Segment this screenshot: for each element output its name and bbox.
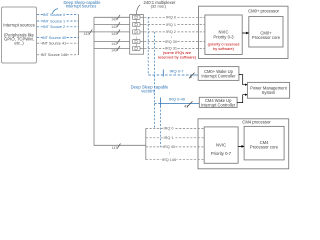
mux input wire row2 [94,22,132,29]
wire INT Source 1 [37,19,79,24]
svg-text:147: 147 [111,32,117,36]
main bus vertical [94,17,146,145]
svg-text:etc..): etc..) [14,41,24,46]
wire IRQ 0 (CM4) [146,126,204,131]
blue vertical A IRQ 0-7 collector [147,17,149,75]
mux ellipsis dots [135,37,138,41]
wire IRQ 2 [140,30,205,35]
mux input wire row5 [94,46,132,53]
svg-text:147: 147 [111,49,117,53]
NVIC CM4 box [204,127,238,163]
svg-text:by software): by software) [213,47,234,51]
svg-text:IRQ 0-7: IRQ 0-7 [169,69,184,74]
svg-text:147: 147 [83,32,89,36]
svg-text:147: 147 [111,25,117,29]
wire INT Source 40 [37,35,79,40]
interrupt sources box [2,7,37,63]
svg-text:147: 147 [112,146,118,150]
svg-text:Priority 0-3: Priority 0-3 [213,34,234,39]
CM4 Wake Up Interrupt Controller box [199,97,237,107]
deep sleep capable interrupt sources annotation [52,0,101,14]
svg-text:IRQ 0: IRQ 0 [166,16,176,20]
svg-text:Processor core: Processor core [250,144,279,149]
svg-text:Interrupt sources: Interrupt sources [3,22,34,27]
Power Management System box [247,82,289,98]
mux label [136,0,176,14]
multiplexer block outer box [130,15,144,55]
wire INT Source 2 [37,24,79,29]
svg-text:IRQ 0: IRQ 0 [164,127,174,131]
mux input wire row4 [94,39,132,46]
wire INT Source 146 [37,52,79,57]
svg-text:IRQ 1: IRQ 1 [164,136,174,140]
wire INT Source 0 [37,12,79,17]
svg-text:IRQ 0-40: IRQ 0-40 [169,97,186,102]
svg-text:INT Source 1: INT Source 1 [43,19,65,23]
svg-text:147: 147 [111,18,117,22]
left collector bus [78,15,80,55]
IRQ ellipsis dots [170,36,173,38]
svg-text:IRQ 146: IRQ 146 [162,158,176,162]
svg-text:IRQ 40: IRQ 40 [163,145,175,149]
svg-text:INT Source 40: INT Source 40 [42,36,66,40]
wire IRQ 0-40 to CM4 WIC [154,97,199,109]
mux input wire row1 [94,15,132,22]
svg-text:IRQ 30: IRQ 30 [165,40,177,44]
svg-text:INT Source 41: INT Source 41 [42,42,66,46]
mux select stubs [135,15,137,47]
mux unit 2 [132,23,140,27]
CM0+ processor core box [249,17,283,48]
CM0+ processor outer box [199,6,289,58]
wire IRQ 31 [140,46,205,51]
blue vertical C collector (CM4 deep sleep) [160,106,162,147]
svg-text:NVIC: NVIC [216,143,226,148]
svg-text:INT Source 0: INT Source 0 [43,13,65,17]
NVIC CM0+ box [205,15,242,55]
mux unit 3 [132,30,140,34]
svg-text:Interrupt Controller: Interrupt Controller [201,74,236,79]
svg-text:INT Source 2: INT Source 2 [43,25,65,29]
CM0+ Wake Up Interrupt Controller box [198,67,239,81]
wire CM0+ WIC to PMS [239,75,247,85]
svg-text:(32 nos.): (32 nos.) [151,4,167,9]
wire IRQ 0-7 to CM0+ WIC [148,69,198,79]
svg-text:interrupt sources: interrupt sources [66,4,97,9]
wire INT Source 41 [37,41,79,46]
wire IRQ 1 (CM4) [146,136,204,141]
svg-text:8: 8 [190,75,192,79]
CM4 processor core box [244,126,284,159]
wire IRQ 30 [140,39,205,44]
svg-text:INT Source 146: INT Source 146 [41,53,68,57]
wire IRQ 40 (CM4) [146,145,204,150]
wire IRQ 1 [140,22,205,27]
svg-text:(priority 0 reserved: (priority 0 reserved [208,42,240,46]
deep sleep capable vectors annotation [131,85,169,94]
svg-text:Processor core: Processor core [252,35,281,40]
arrow NVIC to CM4 core [238,145,244,147]
mux input wire row3 tick [111,30,120,37]
svg-text:CM4 processor: CM4 processor [242,120,271,125]
mux unit 4 [132,40,140,44]
CM4 processor outer box [198,119,289,169]
arrow NVIC to CM0+ core [242,32,248,34]
wire IRQ 0 [140,15,205,20]
svg-text:41: 41 [184,105,188,109]
svg-text:IRQ 1: IRQ 1 [166,23,176,27]
wire IRQ 146 (CM4) [146,157,204,162]
svg-text:Interrupt Controller: Interrupt Controller [201,103,236,108]
svg-text:reserved by software): reserved by software) [158,55,197,60]
svg-text:vectors: vectors [141,89,155,94]
147 tick on bottom feed wire [112,144,121,151]
svg-text:147: 147 [111,42,117,46]
red note reserved IRQs [158,50,197,60]
svg-text:Priority 0-7: Priority 0-7 [211,151,232,156]
blue vertical B collector [153,32,155,128]
wire 147 feed to main bus (row 3) [79,30,133,37]
mux unit 5 [132,46,140,50]
svg-text:System: System [262,90,276,95]
CM4 IRQ ellipsis dots [168,152,171,154]
svg-text:CM0+ processor: CM0+ processor [248,9,279,14]
svg-text:IRQ 2: IRQ 2 [166,30,176,34]
bottom collector bus [145,128,147,159]
mux unit 1 [132,15,140,19]
wire CM4 WIC to PMS [237,95,247,103]
